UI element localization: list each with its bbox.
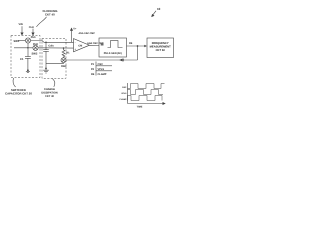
svg-text:10: 10 (157, 7, 161, 11)
svg-text:CLK: CLK (29, 26, 34, 29)
SW3 bottom connection (63, 62, 65, 65)
vertical wire from SW1 down to row 2 (27, 43, 29, 56)
svg-text:OSC: OSC (122, 86, 127, 89)
frequency measurement box (147, 38, 174, 58)
svg-text:-: - (75, 42, 76, 45)
svg-text:ANA OSC CMP: ANA OSC CMP (79, 32, 96, 35)
waveform VPLS trace (128, 90, 164, 95)
junction dot (137, 45, 139, 47)
svg-text:FB: FB (129, 42, 133, 45)
svg-text:SW3: SW3 (61, 65, 67, 68)
svg-text:V+: V+ (73, 27, 77, 30)
charge dissipation circuit dashed box (CKT 30) (42, 39, 66, 79)
svg-text:CKT 60: CKT 60 (156, 49, 166, 52)
svg-text:PH1: PH1 (31, 36, 36, 39)
svg-text:CLAMP: CLAMP (98, 73, 107, 76)
CLK input arrow (32, 29, 34, 35)
svg-text:R1: R1 (66, 51, 70, 54)
wire SW2 to op-amp lower input (38, 47, 73, 49)
arrowhead into freq box (144, 45, 147, 47)
svg-text:PULS GEN (50): PULS GEN (50) (104, 52, 122, 55)
svg-text:CKT 40: CKT 40 (45, 13, 55, 17)
capacitor C1 (25, 56, 31, 58)
svg-text:TIME: TIME (137, 105, 143, 108)
ground under Cdis (43, 70, 49, 73)
wire pulse gen to freq box (127, 45, 146, 47)
svg-text:CM: CM (78, 44, 82, 47)
leader arrow for 10 (152, 11, 156, 17)
switch SW3 (crossed circle) (61, 58, 66, 63)
time axis (128, 103, 166, 105)
svg-text:P1: P1 (91, 63, 95, 66)
junction node dot row2 (27, 47, 29, 49)
bottom wire from Cdis node to SW3 (46, 63, 64, 65)
svg-text:VPLS: VPLS (121, 92, 127, 95)
svg-text:CKT 30: CKT 30 (45, 95, 54, 98)
legend vertical line (95, 62, 97, 76)
leader to switched capacitor label (13, 78, 15, 87)
op-amp supply arrow (70, 28, 72, 42)
op-amp output wire (90, 44, 100, 46)
capacitor Cdis (45, 42, 47, 49)
svg-text:VIN: VIN (19, 23, 23, 26)
svg-text:Cdis: Cdis (48, 45, 54, 48)
svg-text:SW2: SW2 (32, 52, 38, 55)
wire into SW1 (18, 40, 26, 42)
wire into SW2 (14, 47, 33, 49)
svg-text:FB: FB (91, 73, 95, 76)
leader from clocking label (37, 17, 47, 27)
ground blob under C1 (27, 69, 29, 71)
waveform CLAMP trace (128, 96, 163, 101)
svg-text:P2: P2 (91, 68, 95, 71)
feedback wire horizontal (66, 59, 138, 61)
leader to charge dissipation label (53, 79, 55, 87)
junction dot on node above Cdis (45, 42, 47, 44)
wire from SW1 to node row (31, 41, 74, 43)
resistor R1 (62, 48, 65, 58)
arrow glyph on feedback (119, 59, 122, 62)
switch SW1 (crossed circle) (25, 38, 30, 43)
input pin square (101, 43, 104, 46)
pulse glyph (108, 41, 123, 48)
svg-text:CLAMP: CLAMP (119, 98, 127, 101)
svg-text:C1: C1 (20, 58, 24, 61)
switched capacitor circuit dashed box (CKT 20) (11, 36, 40, 78)
op-amp comparator U1 (74, 39, 90, 52)
switch SW2 (crossed circle) (33, 45, 38, 50)
waveform OSC trace (128, 84, 165, 89)
svg-text:CAPACITOR CKT 20: CAPACITOR CKT 20 (5, 92, 32, 96)
waveform axis vertical (127, 83, 129, 104)
junction dot at bottom node (45, 68, 47, 70)
feedback wire down (137, 46, 139, 60)
VIN input arrow (21, 26, 23, 35)
pulse generator box (99, 38, 127, 57)
junction dot resistor tap on row2 (63, 47, 65, 49)
